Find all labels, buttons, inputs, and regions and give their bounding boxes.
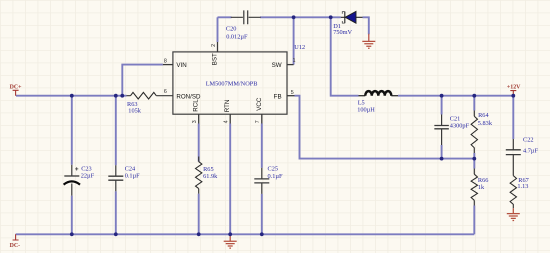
- wire: VCC branch: [261, 124, 263, 235]
- svg-text:C22: C22: [523, 136, 534, 143]
- svg-text:U12: U12: [294, 44, 305, 51]
- wire: C22 branch: [512, 96, 514, 139]
- pin 1 SW: [287, 64, 294, 66]
- svg-text:1k: 1k: [478, 184, 485, 191]
- node: top SW: [292, 15, 296, 19]
- pin 6 RON/SD with resistor R63 leads: [127, 95, 173, 97]
- svg-text:C24: C24: [125, 165, 136, 172]
- capacitor C23 electrolytic: [71, 165, 73, 176]
- svg-text:VCC: VCC: [256, 97, 263, 111]
- resistor R64: [473, 111, 475, 154]
- wire: main input net from DC+: [16, 95, 127, 97]
- capacitor C25: [261, 168, 263, 194]
- node: main VIN: [120, 94, 124, 98]
- svg-text:3: 3: [192, 120, 198, 123]
- svg-text:RCL: RCL: [193, 99, 200, 112]
- wire: C21 branch: [441, 96, 443, 159]
- svg-text:0.012µF: 0.012µF: [226, 33, 248, 40]
- wire: R66 branch: [473, 159, 475, 235]
- node: fb C21: [440, 157, 444, 161]
- wire: RTN branch: [229, 124, 231, 235]
- wire: top boot-strap net: [218, 16, 341, 18]
- svg-text:VIN: VIN: [176, 62, 186, 69]
- resistor R67: [510, 176, 516, 209]
- svg-text:2: 2: [211, 44, 217, 47]
- node: fb R64: [472, 157, 476, 161]
- svg-text:C23: C23: [81, 166, 92, 173]
- svg-text:4.7µF: 4.7µF: [523, 147, 538, 154]
- wire: C24 branch: [115, 96, 117, 235]
- node: main C24: [114, 94, 118, 98]
- pin 3 RCL: [198, 114, 200, 123]
- svg-text:RTN: RTN: [224, 100, 231, 113]
- svg-text:4300pF: 4300pF: [450, 123, 470, 130]
- svg-text:+12V: +12V: [507, 84, 521, 90]
- node: rail C23: [70, 232, 74, 236]
- svg-text:RON/SD: RON/SD: [176, 93, 201, 100]
- svg-text:R64: R64: [478, 112, 489, 119]
- svg-text:R65: R65: [203, 166, 214, 173]
- wire: SW riser: [293, 17, 295, 64]
- capacitor C20: [231, 16, 261, 18]
- pin 2 BST: [217, 42, 219, 52]
- svg-text:R66: R66: [478, 177, 489, 184]
- svg-text:C20: C20: [226, 26, 237, 33]
- resistor R65: [198, 157, 200, 194]
- wire: BST vertical: [217, 17, 219, 42]
- IC U12 LM5007MM/NOPB body: [173, 52, 287, 114]
- svg-text:BST: BST: [212, 53, 219, 65]
- svg-text:6: 6: [164, 89, 167, 95]
- wire: R64 branch: [473, 96, 475, 159]
- wire: RCL branch: [198, 124, 200, 235]
- capacitor C21: [441, 115, 443, 146]
- svg-text:4: 4: [223, 120, 229, 123]
- node: out +12V: [511, 94, 515, 98]
- svg-text:FB: FB: [274, 93, 282, 100]
- svg-text:0.1µF: 0.1µF: [268, 173, 283, 180]
- ground at bottom rail: [229, 234, 231, 241]
- svg-text:C21: C21: [450, 115, 461, 122]
- svg-text:0.1µF: 0.1µF: [125, 173, 140, 180]
- svg-text:DC-: DC-: [10, 243, 21, 249]
- diode D1 schottky: [341, 16, 363, 18]
- svg-text:1: 1: [293, 58, 296, 64]
- wire: VIN branch: [122, 65, 163, 96]
- node: rail R65: [197, 232, 201, 236]
- node: out C21: [440, 94, 444, 98]
- node: main C23: [70, 94, 74, 98]
- capacitor C22: [512, 139, 514, 176]
- svg-text:61.9k: 61.9k: [203, 173, 218, 180]
- svg-text:L5: L5: [358, 99, 365, 106]
- resistor R66: [473, 169, 475, 206]
- wire: bottom rail DC-: [16, 233, 475, 235]
- node: rail C24: [114, 232, 118, 236]
- inductor L5: [359, 95, 399, 97]
- pin 8 VIN: [163, 64, 173, 66]
- svg-text:5: 5: [291, 90, 294, 96]
- svg-text:100µH: 100µH: [357, 107, 375, 114]
- pin 7 VCC: [261, 114, 263, 123]
- svg-text:5.83k: 5.83k: [478, 120, 493, 127]
- svg-text:22µF: 22µF: [81, 173, 95, 180]
- svg-text:7: 7: [255, 120, 261, 123]
- resistor R63: [131, 92, 157, 99]
- wire: C23 branch: [71, 96, 73, 235]
- svg-text:LM5007MM/NOPB: LM5007MM/NOPB: [206, 81, 258, 88]
- node: top D1: [329, 15, 333, 19]
- svg-text:750mV: 750mV: [333, 29, 352, 36]
- wire: switch node down to L5 and output to +12V: [331, 17, 514, 95]
- svg-text:C25: C25: [268, 166, 279, 173]
- ground at R67: [512, 208, 514, 213]
- svg-text:105k: 105k: [128, 107, 141, 114]
- node: rail C25: [260, 232, 264, 236]
- power port DC-: [13, 234, 19, 240]
- pin 4 RTN: [229, 114, 231, 123]
- node: out R64: [472, 94, 476, 98]
- svg-text:1.13: 1.13: [517, 183, 528, 190]
- svg-text:SW: SW: [272, 62, 282, 69]
- ground at D1: [368, 34, 370, 41]
- svg-text:8: 8: [164, 58, 167, 64]
- wire: D1 cathode to ground corner: [363, 17, 369, 34]
- capacitor C24: [115, 165, 117, 191]
- pin 5 FB: [287, 95, 295, 97]
- wire: FB branch: [295, 96, 475, 159]
- node: rail gnd: [228, 232, 232, 236]
